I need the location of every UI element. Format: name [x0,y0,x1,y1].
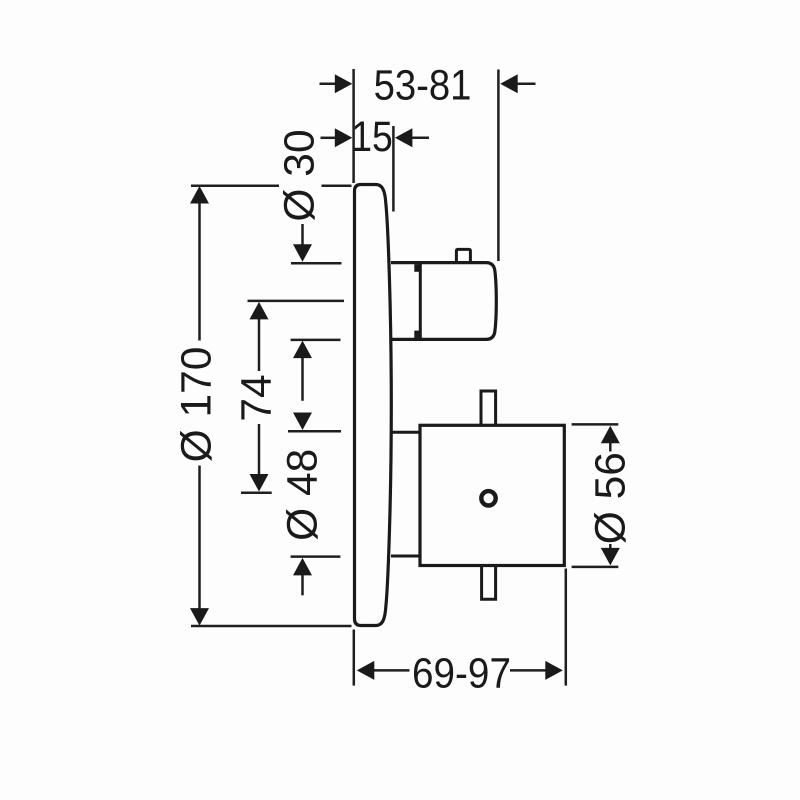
arrow 15 pointing left [395,128,413,147]
volume handle bottom tab [482,566,496,600]
thermostat handle flange edge [419,263,422,339]
dim 53-81 left extension line [352,69,355,183]
dim 15 left tail [321,137,337,140]
dim 170 bottom extension line [191,625,352,628]
volume handle center dot [481,491,495,505]
svg-text:74: 74 [234,374,281,421]
dim 30 lower tail [301,356,304,401]
dim 56 bottom extension line [572,566,619,569]
dim 74 lower tail [258,424,261,474]
volume handle stem top line [391,431,420,434]
dim 53-81 right extension line [497,70,500,262]
arrow 170 up [190,186,209,204]
arrow 30 up [293,341,312,359]
arrow 15 pointing right [335,128,353,147]
svg-text:53-81: 53-81 [374,61,472,109]
dim 48 lower tail [301,574,304,595]
arrow 53-81 pointing left [500,74,518,93]
arrow 56 up [601,426,620,444]
dim 69-97 right tail [510,669,547,672]
dim 74 upper tail [258,317,261,371]
svg-text:Ø 30: Ø 30 [277,129,324,221]
dim 69-97 left tail [373,669,410,672]
dim 56 lower tail [609,544,612,549]
volume handle stem bottom line [391,555,420,558]
thermostat flange nub lower [414,331,420,339]
svg-text:Ø 56: Ø 56 [588,452,635,544]
svg-text:Ø 48: Ø 48 [280,449,327,541]
dim 48 top extension line [288,430,341,433]
arrow 53-81 pointing right [335,74,353,93]
thermostat handle U-top outline [391,263,496,340]
dim 170 top extension line [191,185,279,188]
escutcheon plate (side view) [355,185,392,626]
arrow 48 up [293,558,312,576]
dim 170 line segments [198,202,201,341]
svg-text:15: 15 [351,114,393,161]
arrow 48 down [293,413,312,431]
dim 69-97 right extension line [565,569,568,686]
dim 53-81 left tail [320,83,337,86]
dim 69-97 left extension line [353,630,356,686]
arrow 170 down [190,608,209,626]
arrow 74 up [250,302,269,320]
volume square handle body [420,425,564,565]
arrow 69-97 pointing left [357,661,375,680]
dim 30 upper tail [301,224,304,247]
arrow 30 down [293,244,312,261]
thermostat top button [456,249,470,262]
arrow 69-97 pointing right [545,661,563,680]
dim 56 upper tail [609,442,612,452]
dim 74 top extension line [248,300,345,303]
svg-text:Ø 170: Ø 170 [174,347,221,463]
dim 74 bottom extension line [241,492,272,495]
svg-text:69-97: 69-97 [412,649,511,697]
dim 30 bottom extension line [291,339,341,342]
dim 15 right extension line [392,126,395,212]
dim 48 bottom extension line [291,555,341,558]
dim 15 right tail [411,137,429,140]
volume handle top tab [481,391,496,425]
dim 53-81 right tail [516,83,536,86]
arrow 56 down [601,548,620,566]
dim 30 top extension line [291,262,342,265]
arrow 74 down [250,474,269,492]
thermostat flange nub upper [414,264,420,272]
dim 56 top extension line [572,423,619,426]
